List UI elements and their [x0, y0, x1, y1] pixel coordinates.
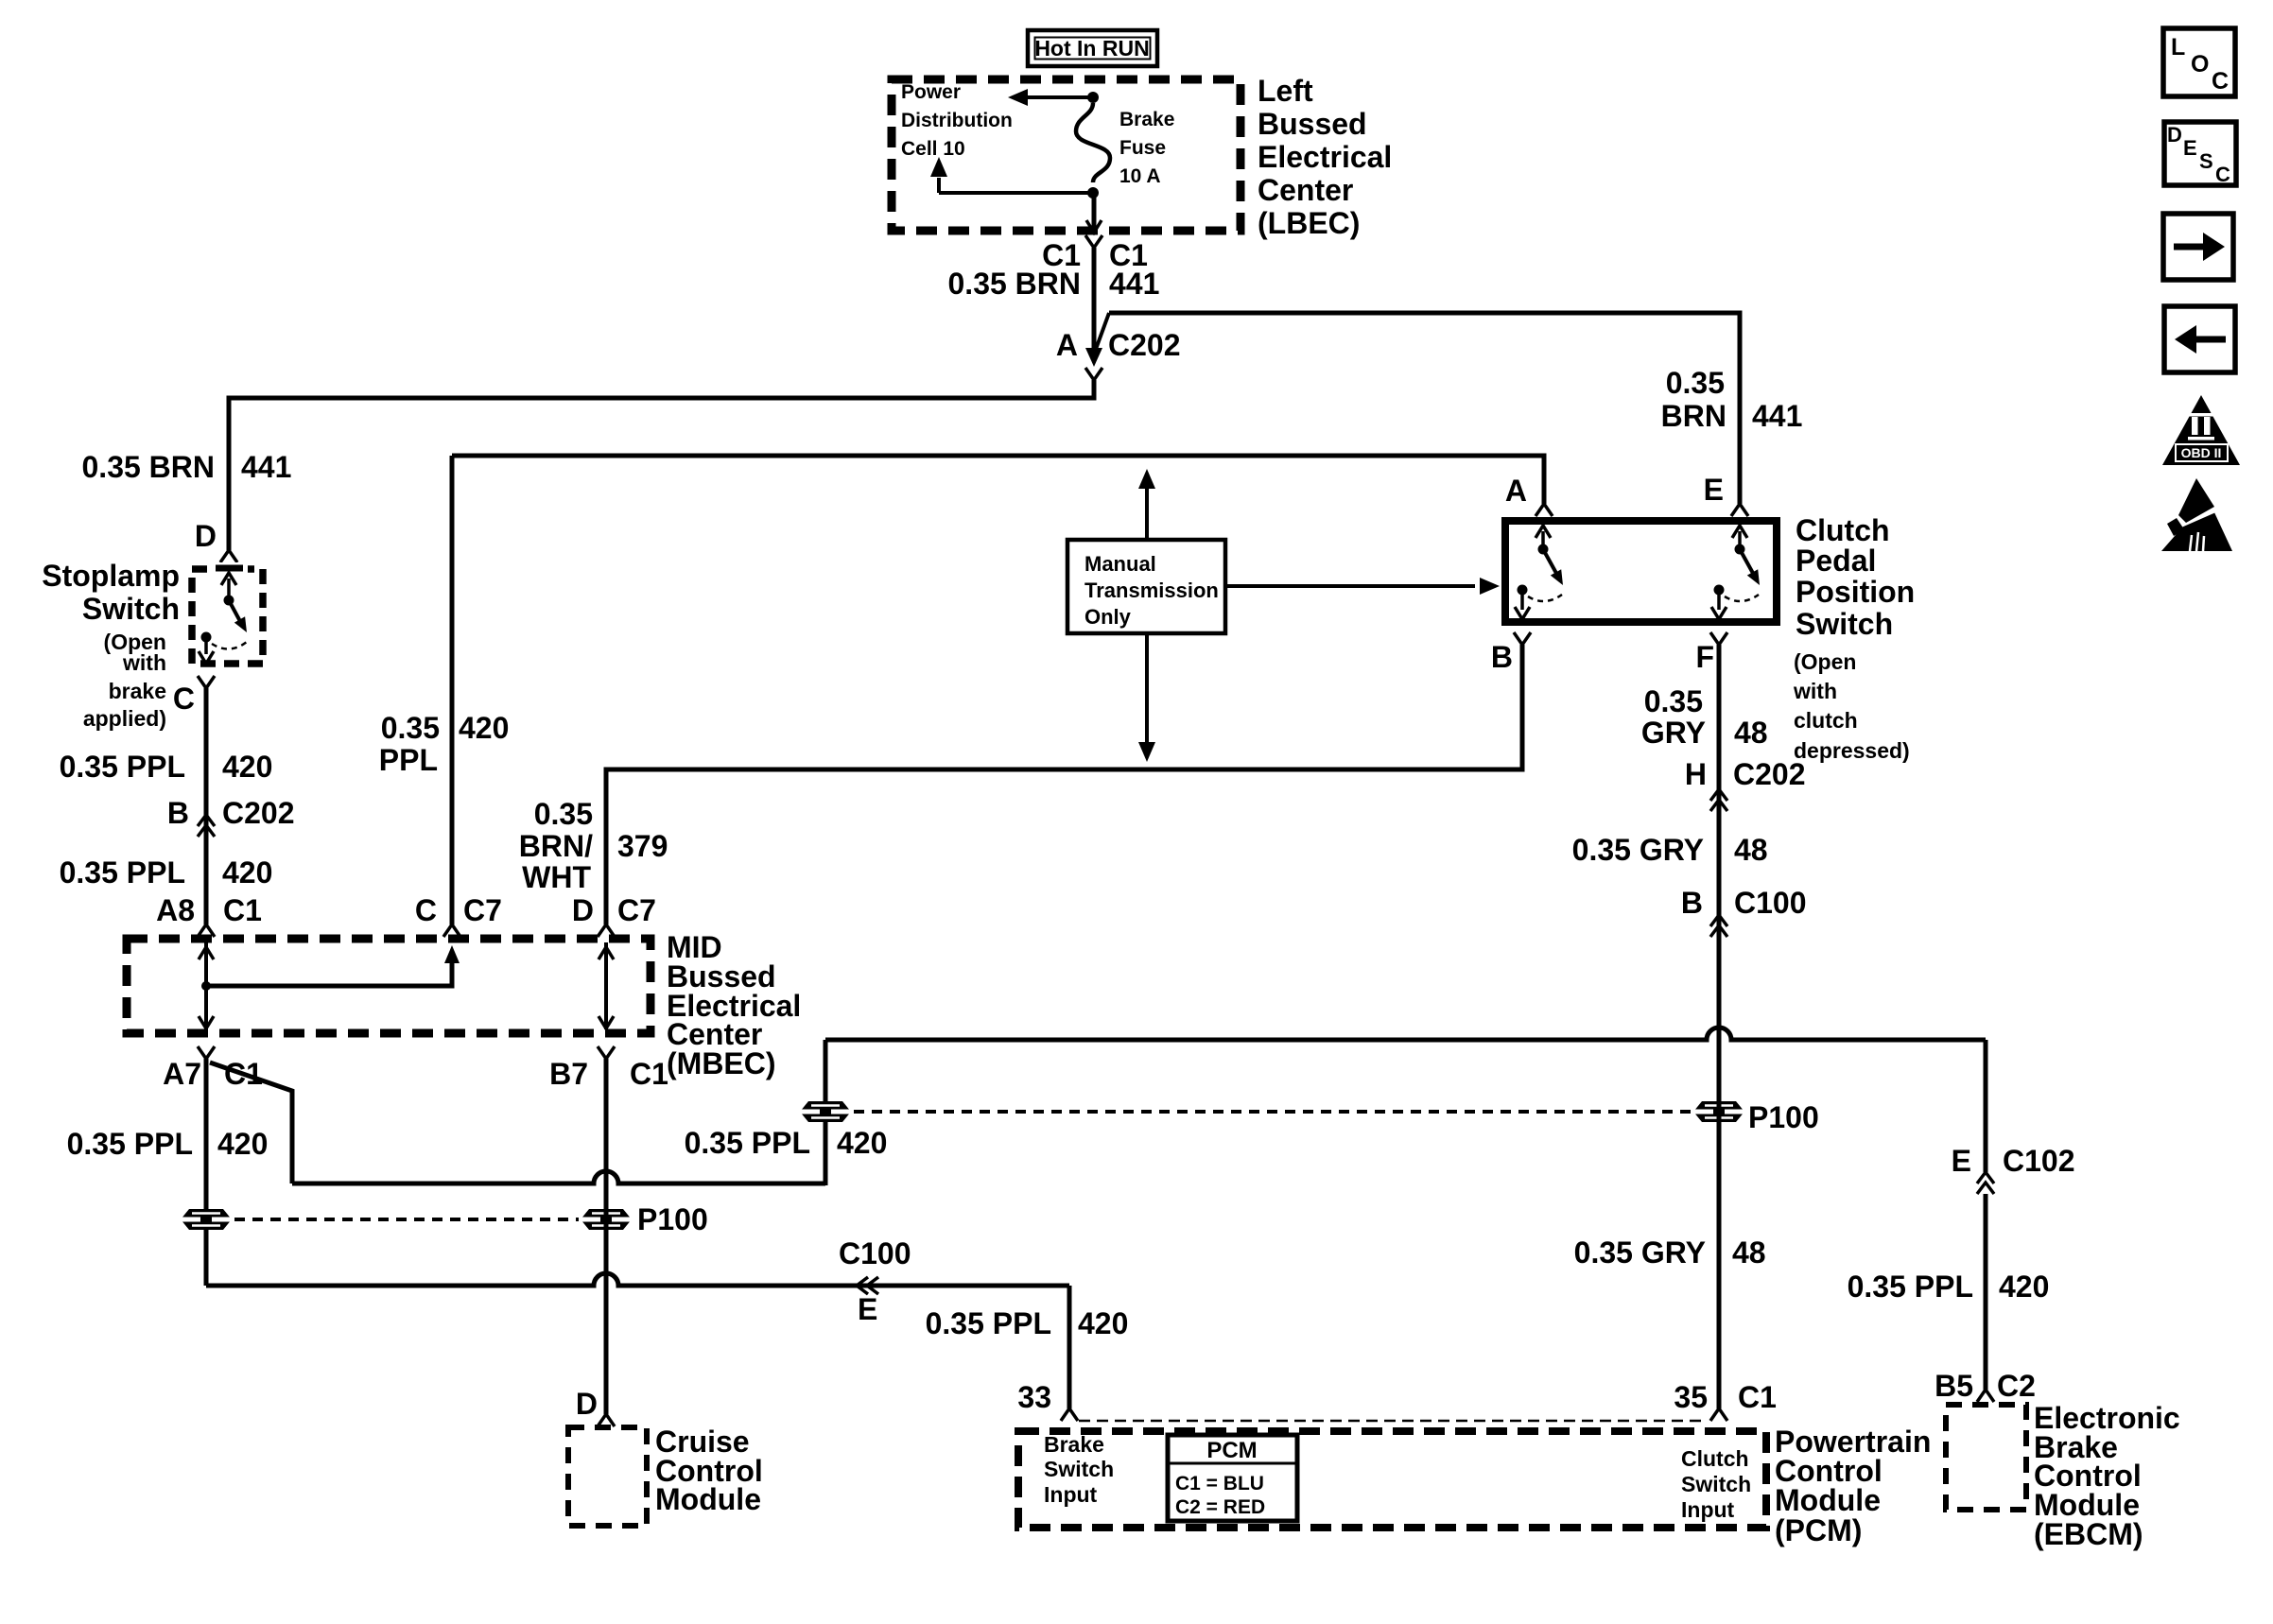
clutch switch travel arc (right)	[1725, 595, 1759, 601]
icon OBD II triangle	[2162, 395, 2240, 465]
svg-text:0.35 GRY: 0.35 GRY	[1572, 833, 1704, 867]
MTO vertical double arrow	[1145, 486, 1149, 540]
svg-text:0.35 PPL: 0.35 PPL	[926, 1306, 1051, 1340]
svg-text:PPL: PPL	[379, 743, 438, 777]
svg-text:Module: Module	[655, 1482, 761, 1516]
svg-text:with: with	[1793, 679, 1837, 703]
svg-text:420: 420	[222, 750, 272, 784]
clutch switch travel arc (left)	[1528, 595, 1562, 601]
Manual Transmission Only box	[1067, 540, 1225, 633]
connector pin B of clutch switch	[1514, 632, 1531, 645]
svg-text:C202: C202	[1108, 328, 1181, 362]
svg-text:A: A	[1056, 328, 1078, 362]
EBCM module box (Electronic Brake Control Module)	[1946, 1405, 2026, 1510]
connector pin D of cruise control module	[598, 1414, 615, 1426]
connector C100 pin E (inline, horizontal)	[857, 1277, 878, 1294]
svg-text:Bussed: Bussed	[1258, 107, 1367, 141]
svg-text:C7: C7	[617, 893, 656, 927]
svg-text:C102: C102	[2003, 1144, 2075, 1178]
svg-text:C100: C100	[839, 1236, 911, 1270]
svg-text:Left: Left	[1258, 74, 1313, 108]
connector pin 33 of PCM	[1061, 1408, 1078, 1421]
clutch switch pivot dot (left)	[1538, 544, 1549, 555]
svg-text:E: E	[858, 1292, 877, 1326]
svg-text:(Open: (Open	[1794, 649, 1856, 674]
stoplamp switch travel arc	[212, 642, 247, 649]
svg-text:Electrical: Electrical	[1258, 140, 1392, 174]
clutch switch blade (left)	[1543, 549, 1558, 577]
svg-text:H: H	[1685, 757, 1707, 791]
svg-text:0.35 BRN: 0.35 BRN	[82, 450, 216, 484]
wire inside MBEC: D to B7 bus	[604, 942, 608, 1029]
svg-text:A8: A8	[156, 893, 195, 927]
connector C102 pin E (inline)	[1977, 1172, 1994, 1194]
svg-text:Only: Only	[1084, 605, 1132, 629]
svg-text:Brake: Brake	[1044, 1432, 1104, 1457]
inline connector P100 (on GRY 48 wire)	[1693, 1101, 1744, 1122]
svg-text:P100: P100	[1748, 1100, 1819, 1134]
wire 420: horizontal to clutch switch A	[452, 456, 1544, 504]
svg-text:0.35: 0.35	[1644, 684, 1703, 718]
wire 420: down to PCM pin 33	[1067, 1286, 1072, 1408]
svg-text:C7: C7	[463, 893, 502, 927]
svg-text:C2: C2	[1997, 1369, 2036, 1403]
svg-text:C202: C202	[222, 796, 295, 830]
svg-text:0.35 PPL: 0.35 PPL	[685, 1126, 810, 1160]
P100 dashed link (left pair)	[234, 1218, 579, 1221]
svg-text:Center: Center	[1258, 173, 1353, 207]
svg-text:Switch: Switch	[1044, 1457, 1114, 1481]
svg-text:0.35 BRN: 0.35 BRN	[948, 267, 1082, 301]
wire inside MBEC: branch to C7 pin C	[206, 953, 452, 986]
svg-text:441: 441	[1752, 399, 1802, 433]
svg-text:35: 35	[1674, 1380, 1708, 1414]
svg-text:48: 48	[1732, 1235, 1766, 1270]
svg-text:441: 441	[241, 450, 291, 484]
svg-text:379: 379	[617, 829, 668, 863]
clutch switch blade (right)	[1740, 549, 1755, 577]
connector C202 pin B (inline)	[198, 815, 215, 837]
connector pin D of stoplamp switch	[220, 550, 237, 562]
connector C202 pin H (inline)	[1710, 789, 1727, 811]
svg-text:C: C	[2215, 163, 2230, 186]
power tag box Hot In RUN	[1028, 30, 1157, 66]
svg-text:420: 420	[459, 711, 509, 745]
wire 420: riser up	[824, 1040, 828, 1185]
svg-text:C1: C1	[630, 1057, 668, 1091]
svg-text:Brake: Brake	[1119, 109, 1174, 130]
stoplamp switch contact bar	[216, 565, 243, 572]
svg-text:Manual: Manual	[1084, 552, 1156, 576]
svg-text:O: O	[2191, 51, 2209, 78]
svg-text:D: D	[572, 893, 594, 927]
stoplamp switch arm arrow (to contact)	[227, 579, 231, 597]
svg-text:33: 33	[1017, 1380, 1051, 1414]
svg-text:Power: Power	[901, 81, 961, 103]
wire 441 branch to right (above C202)	[1109, 313, 1740, 504]
svg-text:with: with	[122, 650, 166, 675]
connector C1 pin B7 at MBEC	[598, 1046, 615, 1059]
svg-text:BRN/: BRN/	[519, 829, 593, 863]
svg-text:Hot In RUN: Hot In RUN	[1034, 36, 1149, 60]
svg-text:Stoplamp: Stoplamp	[42, 559, 180, 593]
svg-text:420: 420	[1078, 1306, 1128, 1340]
wire inside MBEC: A8 to A7 bus	[204, 942, 208, 1029]
svg-text:(MBEC): (MBEC)	[667, 1046, 776, 1080]
svg-text:420: 420	[217, 1127, 268, 1161]
clutch switch pivot dot (right)	[1735, 544, 1745, 555]
stoplamp switch throw dot (lower)	[201, 632, 212, 643]
svg-text:0.35: 0.35	[1666, 366, 1725, 400]
connector C1 at LBEC	[1085, 235, 1102, 248]
wire 420: EBCM drop upper	[1984, 1040, 1988, 1172]
svg-text:(LBEC): (LBEC)	[1258, 206, 1360, 240]
svg-text:E: E	[1952, 1144, 1971, 1178]
icon DESC box	[2164, 122, 2236, 185]
svg-text:WHT: WHT	[522, 860, 591, 894]
svg-text:Input: Input	[1044, 1482, 1098, 1507]
connector pin F of clutch switch	[1710, 632, 1727, 645]
svg-text:F: F	[1695, 640, 1714, 674]
clutch switch throw dot (right)	[1714, 585, 1725, 596]
svg-text:C2 = RED: C2 = RED	[1175, 1496, 1265, 1518]
svg-text:Clutch: Clutch	[1681, 1446, 1749, 1471]
svg-text:420: 420	[222, 855, 272, 890]
svg-text:Pedal: Pedal	[1796, 544, 1876, 578]
svg-text:PCM: PCM	[1206, 1438, 1257, 1463]
svg-text:441: 441	[1109, 267, 1159, 301]
svg-text:0.35 PPL: 0.35 PPL	[1848, 1270, 1973, 1304]
icon back arrow box	[2164, 306, 2235, 372]
wire 420: A7 diagonal branch	[210, 1063, 292, 1183]
svg-text:Position: Position	[1796, 575, 1915, 609]
svg-text:10 A: 10 A	[1119, 165, 1161, 187]
svg-text:0.35: 0.35	[534, 797, 593, 831]
svg-text:Module: Module	[1775, 1483, 1881, 1517]
node: fuse top junction	[1087, 92, 1099, 103]
svg-text:brake: brake	[109, 679, 166, 703]
clutch switch throw dot (left)	[1518, 585, 1528, 596]
svg-text:GRY: GRY	[1641, 716, 1706, 750]
connector pin 35 of PCM	[1710, 1408, 1727, 1421]
svg-text:B: B	[1491, 640, 1513, 674]
wire 48: clutch F down to PCM pin 35	[1717, 645, 1722, 1408]
svg-text:D: D	[2167, 123, 2182, 147]
clutch switch arm arrow (left)	[1541, 531, 1545, 546]
wire 379: B7 down to cruise control module	[604, 1059, 609, 1414]
svg-text:Switch: Switch	[1796, 607, 1893, 641]
inline connector P100 (on 379 wire)	[581, 1209, 632, 1230]
svg-text:A: A	[1505, 474, 1527, 508]
clutch switch lower arm arrow (right)	[1717, 595, 1721, 610]
svg-text:420: 420	[1999, 1270, 2049, 1304]
connector C7 pin C at MBEC	[443, 924, 460, 937]
svg-text:Switch: Switch	[82, 592, 180, 626]
svg-text:48: 48	[1734, 716, 1768, 750]
svg-text:(EBCM): (EBCM)	[2034, 1517, 2143, 1551]
stoplamp switch box	[192, 569, 263, 664]
svg-text:0.35 GRY: 0.35 GRY	[1574, 1235, 1706, 1270]
icon LOC box	[2163, 28, 2235, 96]
svg-text:B: B	[1681, 886, 1703, 920]
svg-text:C1: C1	[1738, 1380, 1777, 1414]
wire 379: clutch B to MBEC D/C7	[606, 645, 1522, 924]
inline connector P100 (riser)	[800, 1101, 851, 1122]
P100 dashed link (right pair)	[854, 1110, 1691, 1114]
svg-text:OBD II: OBD II	[2181, 445, 2222, 460]
stoplamp switch blade (diagonal)	[229, 600, 242, 625]
wire 420: EBCM drop lower	[1984, 1194, 1988, 1390]
wire 420: down to MBEC C7 pin C	[450, 456, 455, 924]
fuse F1 Brake Fuse 10A (element)	[1076, 103, 1110, 182]
svg-text:Fuse: Fuse	[1119, 137, 1166, 159]
svg-text:E: E	[1704, 473, 1724, 507]
cruise control module box	[568, 1427, 647, 1526]
clutch switch lower arm arrow (left)	[1520, 595, 1524, 610]
svg-text:Cell 10: Cell 10	[901, 138, 965, 160]
wire 441: C202 down and left to stoplamp switch	[229, 380, 1094, 550]
svg-text:C202: C202	[1733, 757, 1806, 791]
wire 420: long horizontal to EBCM drop	[825, 1028, 1986, 1040]
svg-text:B7: B7	[549, 1057, 588, 1091]
svg-text:B5: B5	[1935, 1369, 1973, 1403]
svg-text:C: C	[173, 682, 195, 716]
wire 420: A7 down through P100 to C100	[204, 1059, 209, 1286]
svg-text:0.35 PPL: 0.35 PPL	[60, 855, 185, 890]
MBEC module box (MID Bussed Electrical Center)	[127, 939, 651, 1033]
connector C7 pin D at MBEC	[598, 924, 615, 937]
wire 420: stoplamp C down to MBEC	[204, 688, 209, 924]
connector C1 pin A7 at MBEC	[198, 1046, 215, 1059]
wire 441: LBEC C1 down to C202	[1092, 248, 1097, 350]
svg-text:depressed): depressed)	[1794, 738, 1910, 763]
svg-text:C1: C1	[223, 893, 262, 927]
svg-text:D: D	[576, 1387, 598, 1421]
connector C202 pin A (arrow+chevron)	[1085, 348, 1102, 367]
svg-text:B: B	[167, 796, 189, 830]
svg-text:C100: C100	[1734, 886, 1807, 920]
PCM module box (Powertrain Control Module)	[1018, 1431, 1766, 1528]
node: MBEC internal junction	[201, 981, 211, 991]
svg-text:(PCM): (PCM)	[1775, 1513, 1862, 1547]
clutch pedal position switch box	[1505, 521, 1777, 622]
wire: fuse output to Power Distribution (bottom)	[939, 191, 1093, 195]
svg-text:Distribution: Distribution	[901, 110, 1013, 131]
arrow to Power Distribution (bottom)	[937, 178, 941, 193]
svg-text:P100: P100	[637, 1202, 708, 1236]
connector C100 pin B (inline)	[1710, 915, 1727, 937]
svg-text:D: D	[195, 519, 217, 553]
icon ESD warning symbol	[2161, 498, 2232, 551]
svg-text:C: C	[415, 893, 437, 927]
wire: LBEC output stub	[1092, 193, 1097, 232]
wire 420: horizontal to riser	[292, 1171, 825, 1183]
PCM internal dashed link (pins 33-35)	[1079, 1420, 1708, 1423]
svg-text:A7: A7	[163, 1057, 201, 1091]
svg-text:420: 420	[837, 1126, 887, 1160]
svg-text:Input: Input	[1681, 1497, 1735, 1522]
connector C2 pin B5 of EBCM	[1977, 1390, 1994, 1402]
svg-text:0.35 PPL: 0.35 PPL	[67, 1127, 193, 1161]
svg-text:Clutch: Clutch	[1796, 513, 1890, 547]
stoplamp switch lower arm arrow	[204, 642, 208, 654]
connector pin C of stoplamp switch	[198, 676, 215, 688]
svg-text:L: L	[2171, 34, 2185, 60]
svg-text:BRN: BRN	[1661, 399, 1726, 433]
svg-text:0.35: 0.35	[381, 711, 440, 745]
LBEC module box (Left Bussed Electrical Center)	[892, 79, 1241, 231]
clutch switch arm arrow (right)	[1738, 531, 1742, 546]
connector pin E of clutch switch	[1731, 504, 1748, 516]
svg-text:Switch: Switch	[1681, 1472, 1751, 1496]
node: fuse bottom junction	[1087, 187, 1099, 199]
connector C1 pin A8 at MBEC	[198, 924, 215, 937]
svg-text:applied): applied)	[83, 706, 166, 731]
svg-text:E: E	[2183, 136, 2197, 160]
inline connector P100 (left, 420 wire)	[181, 1209, 232, 1230]
svg-text:S: S	[2199, 149, 2213, 173]
PCM legend box	[1168, 1435, 1297, 1521]
arrow to Power Distribution (top)	[1026, 95, 1093, 99]
icon forward arrow box	[2163, 214, 2233, 280]
svg-text:clutch: clutch	[1794, 708, 1858, 733]
svg-text:Transmission: Transmission	[1084, 579, 1219, 602]
MTO arrow to clutch pedal position switch	[1225, 584, 1475, 588]
connector pin A of clutch switch	[1536, 504, 1553, 516]
svg-text:C: C	[2212, 68, 2229, 95]
wire 420: horizontal to PCM pin 33	[206, 1273, 1069, 1286]
svg-text:48: 48	[1734, 833, 1768, 867]
svg-text:0.35 PPL: 0.35 PPL	[60, 750, 185, 784]
stoplamp switch pivot dot (upper)	[224, 596, 234, 606]
svg-text:C1 = BLU: C1 = BLU	[1175, 1473, 1264, 1494]
